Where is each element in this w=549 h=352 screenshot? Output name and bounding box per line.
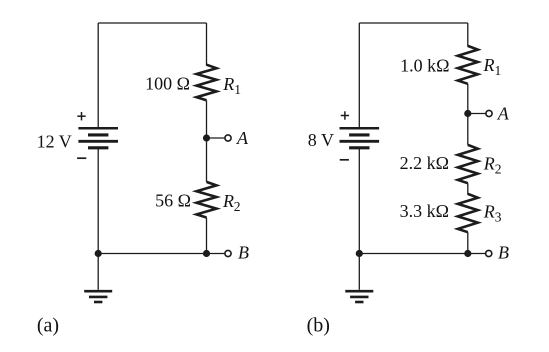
svg-text:B: B [238,242,249,262]
node B junction dot circuit a [203,250,210,257]
resistor R1 (100 ohm) circuit a [197,65,217,101]
wire: R1 bottom lead to node A circuit b [467,84,469,145]
resistor R3 (3.3 kohm) circuit b [458,194,478,232]
wire: between R2 and R3 circuit b [467,183,469,194]
wire: R2 bottom lead to node B [206,218,208,254]
resistor R2 (56 ohm) circuit a [197,182,217,218]
junction dot bottom-left circuit a [95,250,102,257]
terminal (open circle) node A circuit a [225,135,231,141]
wire: right branch top lead to R1 circuit b [467,23,469,47]
wire: left branch upper (battery top lead) circuit a [97,23,99,128]
svg-text:8 V: 8 V [308,130,334,150]
svg-text:R: R [483,154,495,174]
svg-text:R: R [483,55,495,75]
junction dot bottom-left circuit b [356,250,363,257]
node A junction dot circuit b [464,110,471,117]
battery 12 V source circuit a [78,127,118,130]
wire: stub to terminal A circuit a [207,137,225,139]
svg-text:R: R [483,201,495,221]
svg-text:100 Ω: 100 Ω [145,73,190,93]
svg-text:(b): (b) [307,315,330,337]
wire: R3 bottom lead to node B circuit b [467,232,469,253]
label - terminal of battery a [77,157,86,159]
node A junction dot circuit a [203,134,210,141]
svg-text:2.2 kΩ: 2.2 kΩ [400,153,449,173]
resistor R2 (2.2 kohm) circuit b [458,145,478,183]
svg-text:1.0 kΩ: 1.0 kΩ [400,55,449,75]
svg-text:2: 2 [234,199,241,214]
svg-text:B: B [498,242,509,262]
svg-text:A: A [236,128,249,148]
resistor R1 (1.0 kohm) circuit b [458,46,478,84]
svg-text:1: 1 [495,63,502,78]
svg-text:R: R [222,191,234,211]
ground symbol circuit b [358,254,360,290]
svg-text:R: R [222,74,234,94]
label + terminal of battery b [341,115,349,117]
svg-text:1: 1 [234,82,241,97]
ground symbol circuit a [97,254,99,290]
wire: bottom wire circuit b [359,253,468,255]
svg-text:3.3 kΩ: 3.3 kΩ [400,201,449,221]
svg-text:56 Ω: 56 Ω [155,190,191,210]
svg-text:2: 2 [495,162,502,177]
label + terminal of battery a [77,115,85,117]
terminal (open circle) node B circuit b [486,250,492,256]
terminal (open circle) node B circuit a [225,250,231,256]
svg-text:A: A [497,104,510,124]
wire: left branch upper (battery top lead) circuit b [358,23,360,128]
battery 8 V source circuit b [340,127,380,130]
wire: top wire circuit b [359,22,468,24]
wire: right branch top lead to R1 circuit a [206,23,208,66]
node B junction dot circuit b [464,250,471,257]
wire: left branch lower (battery bottom lead) circuit b [358,148,360,254]
wire: stub to terminal B circuit a [207,253,225,255]
label - terminal of battery b [340,159,349,161]
svg-text:(a): (a) [37,315,59,337]
wire: stub to terminal B circuit b [468,253,486,255]
terminal (open circle) node A circuit b [486,110,492,116]
svg-text:3: 3 [495,209,502,224]
wire: stub to terminal A circuit b [468,113,486,115]
wire: left branch lower (battery bottom lead) circuit a [97,148,99,254]
svg-text:12 V: 12 V [37,131,72,151]
wire: between R1 and node A [206,100,208,182]
wire: bottom wire circuit a [98,253,206,255]
wire: top wire circuit a [98,22,206,24]
